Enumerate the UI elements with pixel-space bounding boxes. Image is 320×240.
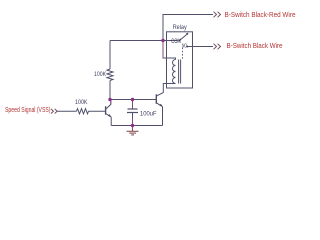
wire cap top lead (tinted) xyxy=(132,100,134,109)
transistor Q2 emitter arrow xyxy=(159,104,163,107)
wire Q1 collector stub (tinted) xyxy=(110,100,112,105)
svg-text:Speed Signal (VSS): Speed Signal (VSS) xyxy=(5,107,51,114)
junction C1 top xyxy=(131,98,134,101)
junction node B (R1 / Q1 collector / Q2 base) xyxy=(108,98,111,101)
svg-text:B-Switch Black Wire: B-Switch Black Wire xyxy=(227,43,283,50)
relay COM contact dot xyxy=(178,40,180,42)
relay upper fixed contact dot xyxy=(186,33,188,35)
wire base Q1 xyxy=(89,110,106,112)
relay switch arm xyxy=(180,34,188,40)
transistor Q1 emitter arrow xyxy=(108,114,112,117)
wire ground rail xyxy=(111,125,162,127)
svg-text:NO: NO xyxy=(182,43,187,49)
wire resistor to node xyxy=(109,81,111,100)
resistor R2 100K horizontal xyxy=(77,109,89,114)
port chevrons output top xyxy=(214,12,221,18)
svg-text:Relay: Relay xyxy=(173,24,188,31)
svg-text:COM: COM xyxy=(171,39,181,45)
capacitor C1 100uF xyxy=(132,100,134,110)
svg-text:B-Switch Black-Red Wire: B-Switch Black-Red Wire xyxy=(225,12,296,19)
junction C1 bottom / ground rail xyxy=(131,124,134,127)
junction node A (COM / coil+ / output) xyxy=(161,39,164,42)
resistor R1 100K vertical xyxy=(107,69,113,81)
svg-text:100uF: 100uF xyxy=(140,110,157,117)
transistor Q2 xyxy=(155,94,157,104)
relay NO contact dot xyxy=(186,46,188,48)
wire left riser xyxy=(109,41,111,70)
wire mid horizontal xyxy=(110,99,156,101)
relay box xyxy=(167,32,193,88)
relay coil core xyxy=(178,60,180,84)
relay actuator dashed link xyxy=(182,48,184,60)
wire NO output xyxy=(188,46,214,48)
relay coil xyxy=(173,60,176,84)
svg-text:100K: 100K xyxy=(75,100,88,106)
ground xyxy=(127,126,139,135)
wire COM horizontal xyxy=(110,40,178,42)
wire top output to node A vertical xyxy=(163,15,213,60)
wire input to R2 xyxy=(57,110,77,112)
wire node A vertical (tinted) xyxy=(162,41,164,59)
port chevrons input left xyxy=(51,109,57,114)
wire cap bottom lead (tinted) xyxy=(132,117,134,126)
wire coil to Q2 collector xyxy=(157,84,176,96)
transistor Q1 xyxy=(106,100,111,110)
svg-text:100K: 100K xyxy=(94,72,106,78)
port chevrons output bottom xyxy=(214,44,221,50)
